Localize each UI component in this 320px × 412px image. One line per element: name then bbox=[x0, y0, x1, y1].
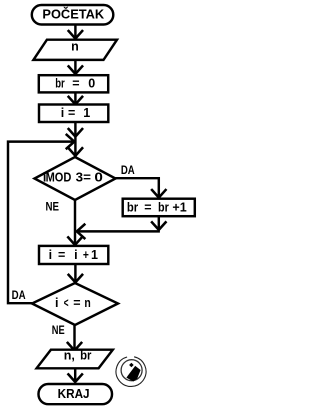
svg-text:i: i bbox=[49, 248, 52, 262]
svg-text:KRAJ: KRAJ bbox=[58, 387, 90, 401]
svg-text:DA: DA bbox=[121, 165, 135, 177]
svg-text:=: = bbox=[73, 296, 80, 310]
svg-text:n: n bbox=[84, 296, 90, 310]
svg-text:<: < bbox=[64, 296, 69, 310]
svg-text:br: br bbox=[158, 200, 169, 214]
svg-text:NE: NE bbox=[52, 325, 65, 337]
svg-text:0: 0 bbox=[88, 76, 95, 90]
svg-text:+1: +1 bbox=[172, 200, 186, 214]
svg-text:br: br bbox=[55, 76, 65, 90]
svg-text:=: = bbox=[144, 200, 151, 214]
svg-text:POČETAK: POČETAK bbox=[42, 7, 104, 22]
svg-text:i: i bbox=[61, 106, 64, 120]
svg-text:3=: 3= bbox=[76, 171, 91, 185]
svg-text:br: br bbox=[80, 349, 91, 363]
svg-text:+: + bbox=[83, 248, 89, 262]
svg-text:n: n bbox=[71, 40, 79, 54]
svg-text:i: i bbox=[74, 248, 77, 262]
svg-text:0: 0 bbox=[94, 171, 103, 185]
svg-text:br: br bbox=[127, 200, 138, 214]
svg-text:NE: NE bbox=[45, 202, 59, 214]
svg-text:1: 1 bbox=[83, 106, 90, 120]
svg-text:=: = bbox=[68, 106, 75, 120]
svg-text:i: i bbox=[55, 296, 58, 310]
svg-text:=: = bbox=[58, 248, 65, 262]
svg-text:=: = bbox=[72, 76, 79, 90]
svg-text:n,: n, bbox=[64, 349, 75, 363]
svg-text:DA: DA bbox=[12, 290, 26, 302]
svg-text:1: 1 bbox=[91, 248, 98, 262]
svg-text:MOD: MOD bbox=[46, 171, 72, 185]
